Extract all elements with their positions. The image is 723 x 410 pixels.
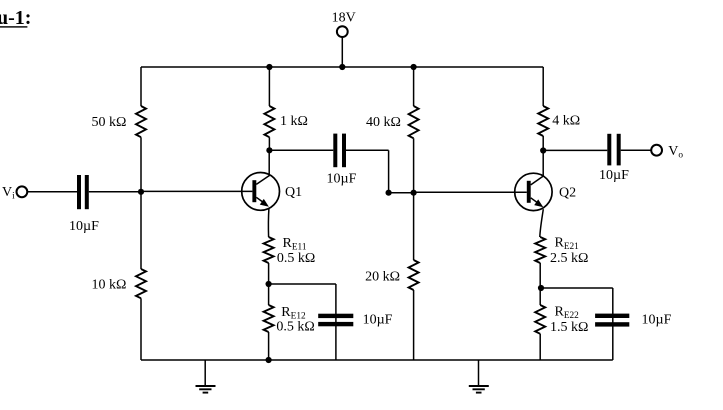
ground 2 bars: [469, 385, 489, 387]
wire base node to Q1 base: [141, 190, 252, 192]
wire corner down to Q2 base level: [388, 150, 390, 192]
resistor RE12 zigzag: [264, 305, 274, 332]
wire output cap to Vo terminal: [621, 149, 651, 151]
svg-text:10µF: 10µF: [327, 172, 357, 187]
svg-text:10µF: 10µF: [599, 168, 629, 183]
wire input cap to base node: [89, 191, 141, 193]
ground 1 stem: [204, 360, 206, 386]
svg-text:10µF: 10µF: [69, 219, 99, 234]
resistor 10k zigzag: [136, 269, 146, 298]
input cap plate right: [85, 175, 89, 209]
node dot mid rail base: [411, 190, 417, 196]
wire 20k to bottom rail: [413, 290, 415, 360]
bypass cap 2 plate bottom: [595, 322, 629, 326]
svg-text:2.5 kΩ: 2.5 kΩ: [550, 251, 588, 266]
svg-text:1.5 kΩ: 1.5 kΩ: [550, 320, 588, 335]
output cap plate left: [607, 134, 611, 166]
svg-text:Q2: Q2: [559, 185, 576, 200]
wire 40k to mid node: [413, 138, 415, 192]
resistor 20k zigzag: [409, 260, 419, 290]
node dot Q2 collector: [540, 147, 546, 153]
svg-text:Vo: Vo: [668, 144, 683, 161]
wire node E2 to RE22: [539, 288, 541, 305]
resistor 50k zigzag: [136, 106, 146, 137]
resistor 4k zigzag: [538, 106, 548, 136]
wire collector node to interstage cap: [269, 149, 333, 151]
wire Q2 collector node to output cap: [543, 149, 607, 151]
wire RE21 to node E2: [539, 263, 541, 288]
output terminal Vo circle: [651, 145, 662, 156]
svg-text:Vi: Vi: [2, 185, 15, 202]
output cap plate right: [617, 134, 621, 166]
wire RE12 to bottom rail: [268, 332, 270, 360]
wire corner to mid node: [389, 192, 414, 194]
interstage cap plate left: [333, 134, 337, 168]
bypass cap 1 plate top: [318, 314, 353, 318]
node dot Vi base node: [138, 189, 144, 195]
svg-text:40 kΩ: 40 kΩ: [366, 115, 401, 130]
node dot 18V top rail: [339, 64, 345, 70]
node dot interstage corner: [386, 190, 392, 196]
wire interstage cap to corner: [346, 149, 389, 151]
wire 4k to collector node Q2: [542, 136, 544, 151]
svg-text:10µF: 10µF: [642, 313, 672, 328]
wire node E1 to bypass cap 1: [269, 283, 336, 285]
wire left rail upper (top rail to 50k): [140, 67, 142, 106]
node dot RE12 bottom: [266, 357, 272, 363]
svg-text:10µF: 10µF: [363, 313, 393, 328]
svg-text:0.5 kΩ: 0.5 kΩ: [277, 251, 315, 266]
wire bottom rail: [141, 359, 613, 361]
svg-text:Q1: Q1: [285, 185, 302, 200]
svg-text:4 kΩ: 4 kΩ: [552, 113, 580, 128]
node dot Q1 collector: [266, 147, 272, 153]
wire 1k to collector node: [268, 137, 270, 150]
ground 1 bars: [196, 385, 216, 387]
svg-text:1 kΩ: 1 kΩ: [280, 114, 308, 129]
wire Q2 emitter to RE21: [540, 209, 544, 237]
wire node E1 to RE12: [268, 284, 270, 305]
wire left rail lower (10k to bottom rail): [140, 298, 142, 360]
svg-text:0.5 kΩ: 0.5 kΩ: [276, 320, 314, 335]
wire node E2 to bypass cap 2: [541, 287, 613, 289]
wire Vi to input cap: [28, 191, 78, 193]
18V supply terminal circle: [337, 26, 348, 37]
wire bypass cap 2 vertical: [612, 288, 614, 360]
wire RE22 to bottom rail: [539, 334, 541, 360]
svg-text:u-1:: u-1:: [0, 7, 31, 29]
wire bypass cap 1 vertical: [335, 284, 337, 360]
node dot E1: [266, 281, 272, 287]
wire 1k branch upper: [268, 67, 270, 106]
resistor 1k zigzag: [264, 106, 274, 137]
svg-text:RE21: RE21: [555, 236, 580, 253]
svg-text:RE22: RE22: [555, 305, 580, 322]
svg-text:50 kΩ: 50 kΩ: [92, 115, 127, 130]
transistor Q1: [242, 150, 280, 210]
interstage cap plate right: [342, 134, 346, 168]
wire mid node to Q2 base: [414, 191, 527, 193]
bypass cap 2 plate top: [595, 314, 629, 318]
svg-text:10 kΩ: 10 kΩ: [92, 278, 127, 293]
wire left rail mid (50k to 10k): [140, 137, 142, 269]
wire 18V lead: [341, 37, 343, 67]
input cap plate left: [77, 175, 81, 209]
node dot E2: [538, 285, 544, 291]
wire Q1 emitter to RE11: [267, 209, 269, 237]
resistor RE22 zigzag: [535, 305, 545, 334]
wire RE11 to node E1: [268, 263, 270, 284]
svg-text:18V: 18V: [332, 11, 356, 26]
wire 4k branch upper: [542, 67, 544, 106]
resistor RE21 zigzag: [535, 237, 545, 263]
wire 40k branch upper: [413, 67, 415, 106]
resistor RE11 zigzag: [264, 237, 274, 263]
wire mid node to 20k: [413, 193, 415, 260]
resistor 40k zigzag: [409, 106, 419, 138]
node dot 1k top rail: [266, 64, 272, 70]
bypass cap 1 plate bottom: [318, 322, 353, 326]
transistor Q2: [515, 151, 552, 211]
ground 2 stem: [478, 360, 480, 386]
wire top rail: [141, 66, 543, 68]
node dot 40k top rail: [411, 64, 417, 70]
svg-text:20 kΩ: 20 kΩ: [365, 270, 400, 285]
input terminal Vi circle: [17, 186, 28, 197]
